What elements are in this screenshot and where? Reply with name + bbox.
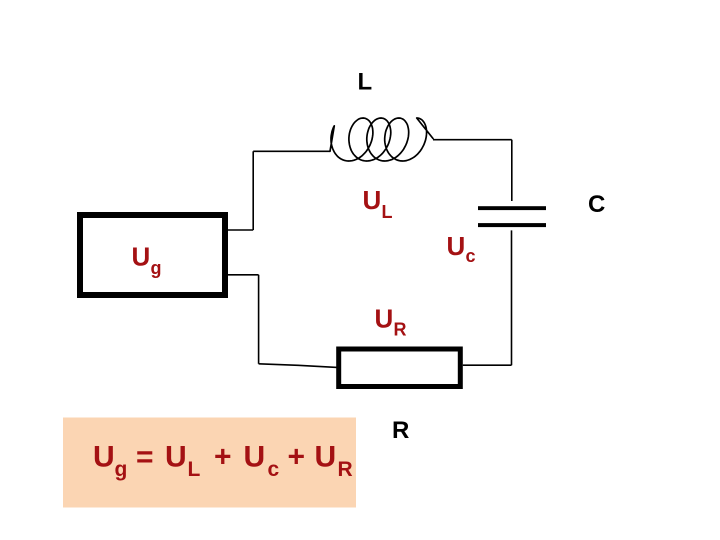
svg-text:U: U (315, 441, 337, 474)
svg-text:c: c (466, 246, 476, 266)
wire lower-left vertical (258, 275, 260, 364)
svg-text:U: U (165, 441, 187, 474)
capacitor C bottom plate (478, 223, 546, 227)
generator box Ug (80, 215, 225, 295)
svg-text:L: L (188, 458, 201, 481)
wire generator bottom lead (227, 274, 259, 276)
svg-text:U: U (375, 304, 394, 334)
svg-text:U: U (363, 185, 382, 215)
svg-text:g: g (151, 258, 162, 278)
svg-text:c: c (268, 458, 280, 481)
formula Ug = UL + Uc + UR (93, 441, 353, 482)
capacitor C top plate (478, 206, 546, 210)
svg-text:+: + (288, 441, 306, 474)
svg-text:U: U (93, 441, 115, 474)
wire top-right horizontal (coil to corner) (433, 139, 512, 141)
svg-text:R: R (392, 417, 409, 444)
wire right vertical lower (corner up to capacitor bottom plate) (511, 230, 513, 365)
wire generator top lead (227, 229, 254, 231)
svg-text:U: U (132, 242, 151, 272)
svg-text:+: + (214, 441, 232, 474)
inductor L coil (330, 118, 433, 161)
svg-text:R: R (338, 458, 353, 481)
svg-text:U: U (244, 441, 266, 474)
svg-text:C: C (588, 191, 605, 218)
wire left vertical (corner down to generator top lead) (252, 151, 254, 230)
svg-text:g: g (115, 458, 128, 481)
resistor R box (339, 349, 461, 387)
svg-text:=: = (136, 441, 154, 474)
wire bottom-right horizontal (resistor to corner) (463, 364, 512, 366)
svg-text:L: L (382, 202, 393, 222)
formula highlight box (63, 418, 356, 508)
wire right vertical upper (capacitor top plate up to corner) (511, 140, 513, 201)
svg-text:L: L (358, 68, 373, 95)
wire bottom-left horizontal (to resistor) (259, 364, 337, 368)
svg-text:U: U (447, 231, 466, 261)
wire top-left horizontal (coil to corner) (253, 150, 330, 152)
svg-text:R: R (394, 320, 407, 340)
